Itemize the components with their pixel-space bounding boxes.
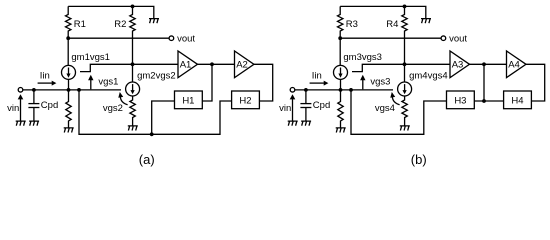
svg-text:Cpd: Cpd (41, 100, 58, 111)
wire input rail (23, 89, 121, 91)
wire A1 output (198, 63, 235, 65)
wire A1 output to H1 input (202, 64, 212, 101)
ground (64, 128, 74, 133)
svg-text:R1: R1 (74, 19, 86, 30)
svg-text:R3: R3 (346, 19, 358, 30)
wire vout line (340, 37, 441, 39)
junction feedback branch tap (349, 88, 353, 92)
svg-text:A4: A4 (508, 59, 520, 70)
node vin terminal (18, 88, 23, 93)
svg-text:vgs2: vgs2 (103, 103, 123, 114)
svg-text:gm1vgs1: gm1vgs1 (71, 52, 110, 63)
arrow Iin (310, 82, 324, 84)
svg-text:vgs3: vgs3 (370, 76, 390, 87)
svg-text:H2: H2 (239, 95, 251, 106)
wire feedback bottom rail to H2 input (79, 90, 232, 134)
wire H3 output to H4 input (474, 100, 503, 102)
wire gm3vgs3 to input rail (340, 79, 342, 90)
wire A2 output to H2 (254, 64, 273, 101)
junction R3 bottom (338, 36, 342, 40)
junction A1 output node (210, 62, 214, 66)
svg-text:A1: A1 (180, 59, 192, 70)
op-amp A2 (235, 51, 255, 78)
node vout terminal (441, 36, 446, 41)
ground (288, 121, 298, 126)
ground (16, 121, 26, 126)
svg-text:A2: A2 (236, 59, 248, 70)
current source gm4vgs4 (398, 82, 412, 96)
junction node X (R4/gm4vgs4) (403, 62, 407, 66)
wire A3 output (470, 63, 507, 65)
ground (29, 121, 39, 126)
svg-text:vout: vout (177, 34, 195, 45)
wire top rail (b) (340, 6, 426, 18)
block H2 (232, 91, 260, 109)
resistor R2 (130, 6, 135, 82)
svg-text:H3: H3 (454, 95, 466, 106)
ground (421, 19, 431, 24)
svg-text:vgs4: vgs4 (375, 103, 395, 114)
junction H1 input on rail (150, 132, 154, 136)
svg-text:gm2vgs2: gm2vgs2 (137, 71, 176, 82)
junction Cpd tap (304, 88, 308, 92)
resistor gm4vgs4 degeneration (402, 96, 407, 126)
wire A4 output to H4 (526, 64, 545, 101)
junction H3-H4 node (482, 99, 486, 103)
junction R2 top (131, 5, 135, 9)
arrow vgs3 (362, 80, 364, 90)
wire top rail (a) (68, 6, 154, 18)
wire A3 output down to H3/H4 (483, 64, 485, 101)
svg-text:Iin: Iin (312, 70, 322, 81)
wire gm3vgs3 output to A3 input (352, 64, 450, 71)
wire R3 bottom to gm3vgs3 (339, 38, 341, 65)
junction gm1vgs1 bottom (67, 88, 71, 92)
svg-text:vout: vout (449, 34, 467, 45)
svg-text:vgs1: vgs1 (98, 76, 118, 87)
op-amp A3 (450, 51, 470, 78)
wire gm1vgs1 to input rail (68, 79, 70, 90)
svg-text:R2: R2 (114, 19, 126, 30)
ground (400, 126, 410, 131)
svg-text:gm3vgs3: gm3vgs3 (343, 52, 382, 63)
arrow vin source (20, 99, 22, 121)
resistor gm2vgs2 degeneration (130, 96, 135, 126)
arrow vgs1 (90, 80, 92, 90)
junction node X (R2/gm2vgs2) (131, 62, 135, 66)
arrow vgs2 (120, 97, 127, 105)
svg-text:(a): (a) (139, 152, 155, 167)
svg-text:H4: H4 (511, 95, 523, 106)
arrow vgs4 (392, 97, 399, 105)
op-amp A4 (507, 51, 527, 78)
ground (336, 128, 346, 133)
junction R1 bottom (66, 36, 70, 40)
node vout terminal (169, 36, 174, 41)
current source gm1vgs1 (62, 65, 76, 79)
svg-text:vin: vin (7, 103, 19, 114)
op-amp A1 (178, 51, 198, 78)
ground (301, 121, 311, 126)
current source gm3vgs3 (334, 65, 348, 79)
junction Cpd tap (32, 88, 36, 92)
wire vout line (68, 37, 169, 39)
capacitor Cpd (305, 90, 307, 104)
wire gm1vgs1 output to A1 input (80, 64, 178, 71)
svg-text:R4: R4 (386, 19, 398, 30)
resistor R4 (402, 6, 407, 82)
current source gm2vgs2 (126, 82, 140, 96)
svg-text:H1: H1 (182, 95, 194, 106)
svg-text:vin: vin (279, 103, 291, 114)
wire input rail (295, 89, 393, 91)
block H4 (504, 91, 532, 109)
junction R4 top (403, 5, 407, 9)
svg-text:gm4vgs4: gm4vgs4 (409, 71, 448, 82)
junction A3 output node (482, 62, 486, 66)
arrow vin source (292, 99, 294, 121)
resistor input shunt (338, 90, 343, 128)
ground (149, 19, 159, 24)
block H1 (175, 91, 203, 109)
wire R1 bottom to gm1vgs1 (67, 38, 69, 65)
svg-text:Cpd: Cpd (313, 100, 330, 111)
resistor R1 (66, 6, 71, 38)
wire feedback bottom rail to H3 input (351, 90, 447, 134)
svg-text:A3: A3 (452, 59, 464, 70)
resistor input shunt (66, 90, 71, 128)
junction gm3vgs3 bottom (339, 88, 343, 92)
svg-text:Iin: Iin (40, 70, 50, 81)
resistor R3 (338, 6, 343, 38)
junction feedback branch tap (77, 88, 81, 92)
capacitor Cpd (33, 90, 35, 104)
node vin terminal (290, 88, 295, 93)
wire H1 input (152, 101, 175, 134)
arrow Iin (38, 82, 52, 84)
svg-text:(b): (b) (411, 152, 427, 167)
block H3 (447, 91, 475, 109)
ground (128, 126, 138, 131)
